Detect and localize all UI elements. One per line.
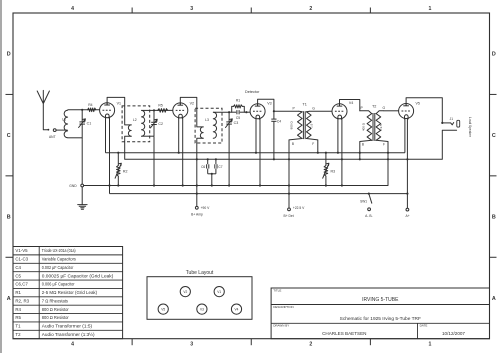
svg-text:V3: V3 <box>267 102 271 106</box>
svg-text:D: D <box>492 52 496 58</box>
svg-text:B: B <box>362 143 364 147</box>
svg-text:V5: V5 <box>416 102 420 106</box>
svg-text:2-5 MΩ Resistor (Grid Leak): 2-5 MΩ Resistor (Grid Leak) <box>42 290 98 295</box>
svg-text:G: G <box>312 106 315 110</box>
svg-text:V2: V2 <box>183 290 187 294</box>
svg-text:Audio Transformer (1:5): Audio Transformer (1:5) <box>42 324 93 329</box>
svg-text:B: B <box>7 214 11 220</box>
svg-text:Tube Layout: Tube Layout <box>186 270 214 276</box>
svg-text:800 Ω: 800 Ω <box>290 121 294 130</box>
svg-text:R2, R3: R2, R3 <box>15 298 29 303</box>
svg-text:DATE: DATE <box>420 324 428 328</box>
svg-text:R4: R4 <box>88 103 92 107</box>
svg-text:DESCRIPTION: DESCRIPTION <box>273 305 294 309</box>
svg-text:0.002 µF Capacitor: 0.002 µF Capacitor <box>42 265 74 270</box>
svg-text:3: 3 <box>190 342 193 348</box>
svg-text:10/12/2007: 10/12/2007 <box>442 331 465 336</box>
svg-text:R5: R5 <box>158 103 162 107</box>
svg-text:R1: R1 <box>236 99 240 103</box>
svg-text:J1: J1 <box>450 117 454 121</box>
svg-text:Detector: Detector <box>245 90 260 94</box>
svg-text:C: C <box>7 133 11 139</box>
svg-text:V1-V5: V1-V5 <box>15 248 28 253</box>
svg-text:B: B <box>292 142 294 146</box>
svg-text:T1: T1 <box>15 324 21 329</box>
svg-text:C1: C1 <box>87 121 92 125</box>
svg-text:4: 4 <box>71 6 74 12</box>
svg-text:Schematic for 1925 Irving 5-Tu: Schematic for 1925 Irving 5-Tube TRF <box>340 316 421 322</box>
svg-text:CHARLES BAETSEN: CHARLES BAETSEN <box>322 331 366 336</box>
svg-text:G: G <box>382 106 385 110</box>
svg-text:C4: C4 <box>277 119 281 123</box>
svg-text:0.00025 µF Capacitor (Grid Lea: 0.00025 µF Capacitor (Grid Leak) <box>42 273 114 278</box>
svg-text:C5: C5 <box>236 116 240 120</box>
svg-text:+90 V: +90 V <box>201 206 211 210</box>
svg-text:C3: C3 <box>234 121 239 125</box>
svg-text:2: 2 <box>309 6 312 12</box>
svg-text:A: A <box>7 296 11 302</box>
svg-text:800 Ω Resistor: 800 Ω Resistor <box>42 315 69 320</box>
svg-text:0.006 µF Capacitor: 0.006 µF Capacitor <box>42 282 75 287</box>
svg-text:A- B-: A- B- <box>365 214 373 218</box>
svg-text:400 Ω: 400 Ω <box>361 122 365 131</box>
svg-text:800 Ω Resistor: 800 Ω Resistor <box>42 307 69 312</box>
svg-text:R5: R5 <box>15 315 21 320</box>
svg-text:B+ Det: B+ Det <box>284 214 294 218</box>
svg-text:+22.5 V: +22.5 V <box>293 206 305 210</box>
svg-text:C5: C5 <box>15 273 21 278</box>
svg-text:V4: V4 <box>349 101 353 105</box>
svg-text:C7: C7 <box>218 165 222 169</box>
svg-text:Triode UX-201a (01a): Triode UX-201a (01a) <box>42 248 76 253</box>
svg-text:V2: V2 <box>190 102 194 106</box>
svg-text:T1: T1 <box>302 103 306 107</box>
svg-text:GND: GND <box>69 184 77 188</box>
svg-text:B: B <box>492 214 496 220</box>
svg-text:SW1: SW1 <box>360 200 367 204</box>
svg-text:L3: L3 <box>205 118 209 122</box>
svg-text:T2: T2 <box>15 332 21 337</box>
svg-text:A+: A+ <box>406 214 410 218</box>
svg-text:D: D <box>7 52 11 58</box>
svg-text:2: 2 <box>309 342 312 348</box>
svg-text:4: 4 <box>71 342 74 348</box>
svg-text:C6: C6 <box>201 165 205 169</box>
svg-text:F: F <box>312 142 314 146</box>
svg-text:V3: V3 <box>200 307 204 311</box>
svg-text:F: F <box>383 143 385 147</box>
svg-text:7 Ω Rheostats: 7 Ω Rheostats <box>42 298 69 303</box>
svg-text:Variable Capacitors: Variable Capacitors <box>42 257 77 262</box>
svg-text:R4: R4 <box>15 307 21 312</box>
svg-text:V1: V1 <box>217 290 221 294</box>
svg-text:C1-C3: C1-C3 <box>15 257 28 262</box>
svg-text:Audio Transformer (1:3½): Audio Transformer (1:3½) <box>42 331 95 337</box>
svg-text:IRVING 5-TUBE: IRVING 5-TUBE <box>362 297 399 303</box>
svg-text:A: A <box>492 296 496 302</box>
svg-text:L2: L2 <box>133 118 137 122</box>
svg-text:L1: L1 <box>62 118 66 122</box>
svg-text:ANT: ANT <box>49 135 56 139</box>
svg-text:R1: R1 <box>15 290 21 295</box>
svg-text:1: 1 <box>428 342 431 348</box>
svg-text:1:3.5: 1:3.5 <box>379 124 383 131</box>
svg-text:C: C <box>492 133 496 139</box>
svg-text:DRAWN BY: DRAWN BY <box>273 324 289 328</box>
svg-text:3: 3 <box>190 6 193 12</box>
svg-text:V4: V4 <box>235 307 239 311</box>
svg-text:TITLE: TITLE <box>273 289 281 293</box>
svg-text:B+ Amp: B+ Amp <box>191 212 203 216</box>
svg-text:C4: C4 <box>15 265 21 270</box>
svg-text:R2: R2 <box>123 169 128 173</box>
svg-text:C6,C7: C6,C7 <box>15 282 28 287</box>
svg-text:1:5: 1:5 <box>309 123 313 128</box>
svg-text:T2: T2 <box>372 104 376 108</box>
svg-text:C2: C2 <box>158 122 163 126</box>
svg-text:1: 1 <box>428 6 431 12</box>
svg-text:V1: V1 <box>117 102 121 106</box>
svg-text:V5: V5 <box>161 307 165 311</box>
svg-text:Loud Speaker: Loud Speaker <box>468 117 472 138</box>
svg-text:R3: R3 <box>331 169 336 173</box>
